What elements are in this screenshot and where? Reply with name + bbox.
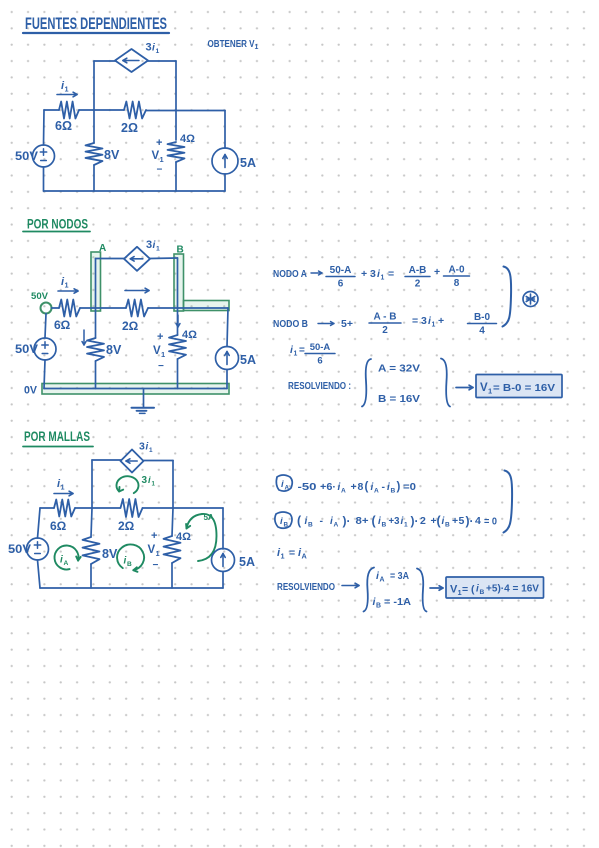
svg-text:1: 1 — [381, 275, 385, 282]
svg-text:= 3: = 3 — [412, 315, 427, 327]
svg-text:+: + — [351, 481, 357, 493]
svg-text:6Ω: 6Ω — [54, 318, 71, 332]
svg-text:): ) — [397, 481, 401, 493]
svg-text:8V: 8V — [106, 343, 122, 357]
svg-text:RESOLVIENDO :: RESOLVIENDO : — [288, 381, 351, 392]
svg-text:1: 1 — [161, 350, 165, 359]
svg-text:+: + — [157, 331, 163, 343]
svg-text:2Ω: 2Ω — [121, 121, 138, 135]
svg-text:B: B — [177, 245, 184, 256]
svg-text:5A: 5A — [240, 156, 256, 170]
svg-text:3: 3 — [142, 475, 148, 486]
svg-text:6Ω: 6Ω — [55, 119, 72, 133]
svg-text:8V: 8V — [104, 148, 120, 162]
svg-text:3: 3 — [146, 239, 152, 251]
svg-text:2Ω: 2Ω — [118, 519, 135, 533]
svg-text:= B-0 = 16V: = B-0 = 16V — [493, 382, 555, 394]
svg-text:8: 8 — [454, 278, 460, 289]
svg-text:1: 1 — [294, 351, 298, 358]
svg-text:B: B — [284, 522, 289, 529]
svg-text:1: 1 — [156, 48, 160, 55]
svg-text:50-A: 50-A — [330, 265, 352, 276]
svg-text:A: A — [64, 560, 69, 567]
svg-text:A: A — [380, 577, 385, 584]
svg-text:A: A — [374, 488, 379, 495]
svg-text:4Ω: 4Ω — [176, 531, 191, 543]
svg-text:1: 1 — [404, 522, 408, 529]
svg-text:4Ω: 4Ω — [182, 329, 197, 341]
svg-text:+: + — [434, 266, 440, 278]
svg-text:4: 4 — [475, 515, 481, 527]
svg-text:POR MALLAS: POR MALLAS — [24, 429, 90, 444]
svg-text:RESOLVIENDO: RESOLVIENDO — [277, 582, 335, 593]
svg-text:50V: 50V — [15, 151, 38, 163]
svg-text:A - B: A - B — [374, 312, 397, 323]
svg-text:= (: = ( — [462, 584, 475, 596]
svg-text:B: B — [445, 522, 450, 529]
svg-text:−: − — [158, 361, 164, 372]
svg-text:= -1A: = -1A — [384, 596, 411, 608]
svg-text:-: - — [320, 515, 324, 527]
svg-text:1: 1 — [149, 447, 153, 454]
svg-text:5A: 5A — [240, 353, 256, 367]
svg-text:2: 2 — [415, 279, 421, 290]
svg-text:3: 3 — [146, 42, 152, 54]
svg-text:A-0: A-0 — [448, 265, 465, 276]
svg-text:V: V — [152, 150, 160, 162]
svg-text:−: − — [157, 165, 163, 176]
svg-text:1: 1 — [156, 246, 160, 253]
svg-text:)·: )· — [343, 514, 351, 528]
svg-text:2: 2 — [420, 515, 426, 527]
svg-text:=: = — [299, 345, 305, 356]
svg-text:-50: -50 — [298, 481, 317, 493]
svg-text:=0: =0 — [403, 481, 416, 493]
svg-text:(: ( — [365, 481, 369, 493]
svg-text:NODO B: NODO B — [273, 318, 308, 330]
svg-text:=: = — [289, 547, 295, 559]
svg-text:1: 1 — [160, 155, 164, 164]
svg-text:= 0: = 0 — [484, 516, 497, 528]
svg-text:8V: 8V — [102, 547, 118, 561]
svg-text:+: + — [151, 530, 157, 542]
svg-text:B = 16V: B = 16V — [378, 393, 420, 405]
svg-text:50V: 50V — [15, 344, 38, 356]
svg-text:+: + — [438, 315, 444, 327]
svg-text:5A: 5A — [204, 513, 214, 522]
svg-text:A: A — [285, 485, 290, 492]
svg-text:A: A — [341, 488, 346, 495]
svg-text:= 3A: = 3A — [390, 570, 409, 582]
svg-text:1: 1 — [156, 549, 160, 558]
svg-text:6Ω: 6Ω — [50, 519, 67, 533]
svg-text:4: 4 — [479, 326, 485, 337]
svg-text:8+: 8+ — [356, 515, 369, 527]
svg-text:1: 1 — [432, 322, 436, 329]
svg-text:50-A: 50-A — [310, 342, 331, 353]
svg-text:6: 6 — [338, 279, 344, 290]
svg-text:+6·: +6· — [320, 481, 336, 493]
svg-text:−: − — [153, 560, 159, 571]
svg-text:1: 1 — [65, 85, 69, 94]
svg-text:6: 6 — [317, 356, 322, 367]
svg-text:1: 1 — [61, 483, 65, 492]
svg-text:B: B — [480, 589, 485, 596]
svg-text:A: A — [334, 522, 339, 529]
svg-text:1: 1 — [255, 44, 259, 51]
svg-text:50V: 50V — [8, 544, 31, 556]
svg-text:B: B — [391, 488, 396, 495]
svg-text:V: V — [480, 382, 488, 394]
svg-text:+3: +3 — [389, 515, 400, 527]
svg-text:B-0: B-0 — [474, 312, 491, 323]
svg-text:50V: 50V — [31, 291, 48, 301]
svg-text:FUENTES DEPENDIENTES: FUENTES DEPENDIENTES — [25, 14, 167, 33]
svg-text:B: B — [376, 603, 381, 610]
svg-text:)·: )· — [411, 514, 419, 528]
svg-text:B: B — [382, 522, 387, 529]
svg-text:B: B — [308, 522, 313, 529]
svg-text:+: + — [452, 515, 458, 527]
svg-text:5+: 5+ — [341, 318, 353, 330]
svg-text:2: 2 — [382, 325, 388, 336]
svg-text:1: 1 — [281, 552, 285, 561]
svg-text:NODO A: NODO A — [273, 268, 307, 280]
svg-text:V: V — [148, 544, 156, 556]
svg-text:+ 3: + 3 — [361, 268, 376, 280]
svg-text:+5)·4 = 16V: +5)·4 = 16V — [486, 583, 539, 595]
svg-text:A-B: A-B — [409, 265, 427, 276]
svg-text:=: = — [388, 268, 394, 280]
svg-text:5: 5 — [459, 515, 465, 527]
svg-text:-: - — [382, 481, 386, 493]
svg-text:)·: )· — [466, 514, 474, 528]
svg-text:1: 1 — [65, 281, 69, 290]
svg-text:+: + — [156, 137, 162, 149]
svg-text:2Ω: 2Ω — [122, 319, 139, 333]
svg-text:3: 3 — [139, 441, 145, 453]
svg-text:OBTENER V: OBTENER V — [208, 38, 255, 50]
svg-text:8: 8 — [358, 481, 364, 493]
svg-text:V: V — [153, 345, 161, 357]
svg-text:1: 1 — [488, 387, 492, 396]
svg-text:A: A — [302, 552, 308, 561]
svg-text:4Ω: 4Ω — [180, 133, 195, 145]
svg-text:5A: 5A — [239, 555, 255, 569]
svg-text:0V: 0V — [24, 385, 38, 397]
svg-text:B: B — [127, 561, 132, 568]
svg-text:A: A — [99, 243, 106, 254]
svg-text:A = 32V: A = 32V — [378, 363, 420, 375]
svg-text:POR NODOS: POR NODOS — [27, 217, 88, 232]
